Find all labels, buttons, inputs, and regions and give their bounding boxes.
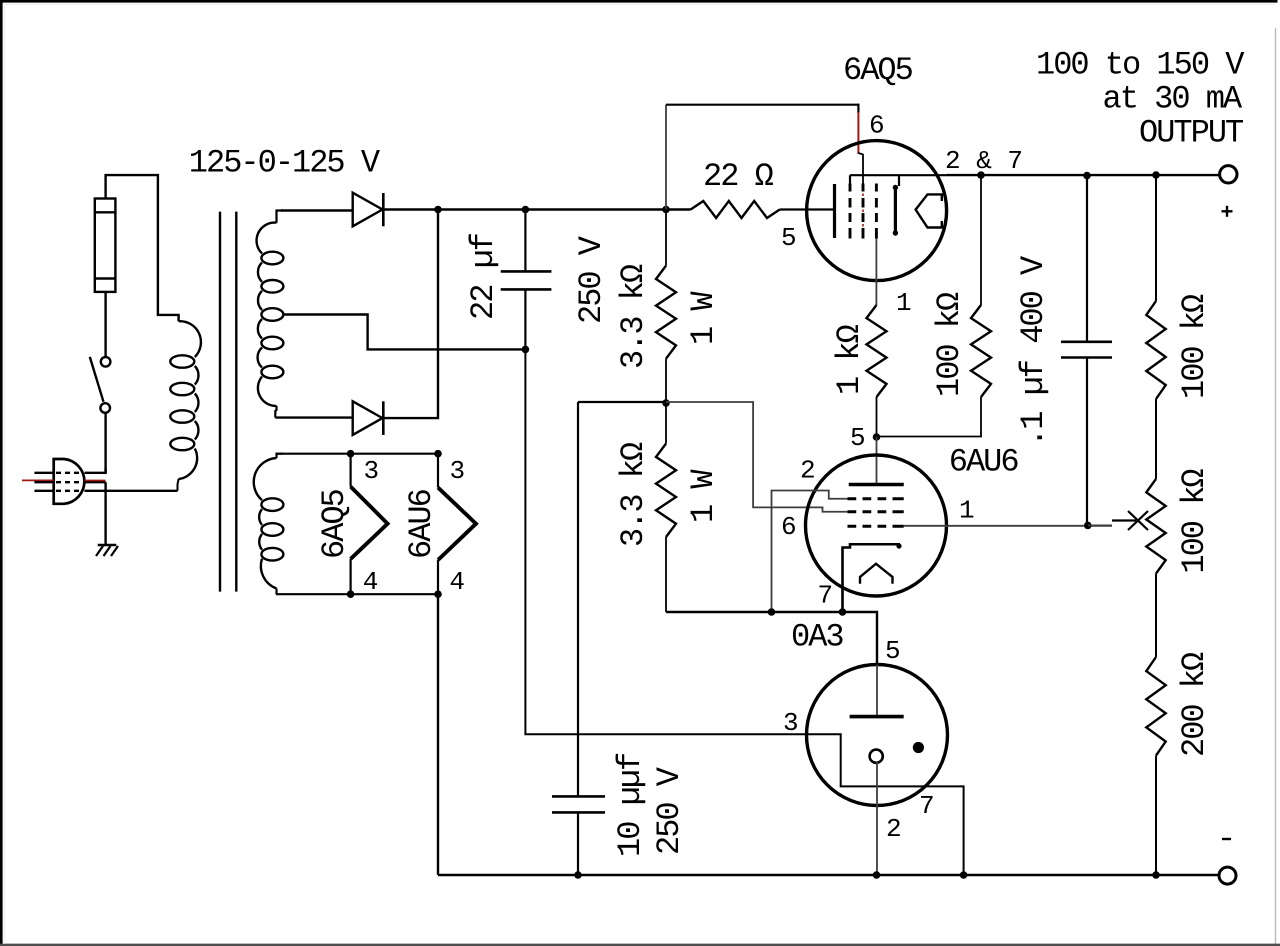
svg-text:7: 7 xyxy=(818,581,834,611)
transformer primary winding xyxy=(179,321,201,357)
svg-text:4: 4 xyxy=(449,567,465,597)
transformer filament winding 6.3V xyxy=(277,454,284,458)
6AQ5 plate bar xyxy=(894,188,897,234)
svg-text:at 30 mA: at 30 mA xyxy=(1103,81,1243,118)
svg-text:6AU6: 6AU6 xyxy=(949,444,1019,481)
svg-text:1: 1 xyxy=(959,496,975,526)
svg-text:7: 7 xyxy=(919,791,935,821)
wire bottom rail xyxy=(438,874,1219,876)
svg-text:1 W: 1 W xyxy=(685,291,722,345)
6AQ5 control grid red dots xyxy=(862,194,864,197)
wire HV top to diode D1 xyxy=(281,209,353,211)
svg-text:100 kΩ: 100 kΩ xyxy=(1176,294,1213,399)
svg-text:3: 3 xyxy=(450,456,466,486)
wire ground prong down xyxy=(104,482,106,545)
output terminal + xyxy=(1220,166,1237,183)
6AQ5 cathode bar xyxy=(833,184,836,238)
wire B+ rail xyxy=(438,208,691,210)
heater 6AU6 xyxy=(437,454,439,488)
tube V3 0A3 envelope xyxy=(807,665,948,806)
svg-text:5: 5 xyxy=(885,636,901,666)
potentiometer R7 100k xyxy=(1146,479,1165,574)
svg-text:200 kΩ: 200 kΩ xyxy=(1176,652,1213,757)
wire hot prong to switch xyxy=(85,468,106,473)
svg-text:250 V: 250 V xyxy=(573,235,610,324)
node divider bottom xyxy=(1152,871,1160,879)
wire neutral prong to transformer primary xyxy=(85,490,178,492)
svg-text:6AU6: 6AU6 xyxy=(403,489,440,559)
wire 0A3 pin2 down xyxy=(876,762,878,875)
svg-text:1 kΩ: 1 kΩ xyxy=(831,324,868,395)
svg-text:1: 1 xyxy=(896,288,912,318)
node heater 6AQ5 pin4 xyxy=(347,590,355,598)
node pin2 route junction xyxy=(768,608,776,616)
ground symbol xyxy=(98,544,117,547)
wire filament top xyxy=(276,453,438,455)
svg-text:6AQ5: 6AQ5 xyxy=(316,489,353,559)
pot wiper arrow xyxy=(1088,524,1112,526)
wire 6AU6 pin2 route xyxy=(772,491,848,613)
capacitor C2 10uuf 250V xyxy=(552,795,605,798)
wire down to 6AQ5 pin6 (red) xyxy=(857,104,859,113)
wire heater return down xyxy=(437,594,439,875)
svg-text:250 V: 250 V xyxy=(651,766,688,855)
node 6AU6 pin5 junction xyxy=(873,433,881,441)
svg-text:OUTPUT: OUTPUT xyxy=(1139,115,1243,152)
wire top feedback horizontal xyxy=(666,104,858,106)
svg-text:3.3 kΩ: 3.3 kΩ xyxy=(615,264,652,369)
wire 0A3 pin5 to anode xyxy=(876,665,878,718)
resistor R1 22 ohm xyxy=(691,201,780,218)
wire 6AQ5 pin1 down xyxy=(875,239,877,306)
AC plug P1 body xyxy=(54,459,85,504)
6AQ5 grids (dashed columns) xyxy=(849,184,852,192)
label minus xyxy=(1222,838,1231,840)
resistor R6 100k divider xyxy=(1155,175,1157,301)
node heater 6AU6 pin3 xyxy=(434,450,442,458)
svg-text:0A3: 0A3 xyxy=(791,619,843,656)
svg-text:2: 2 xyxy=(886,814,902,844)
node .1uf top xyxy=(1083,172,1091,180)
wire 3.3k junction branch down xyxy=(577,402,579,796)
capacitor C1 22uf 250V xyxy=(524,210,526,272)
resistor R3 3.3k 1W xyxy=(656,444,676,537)
wire pin5 to 6AU6 plate xyxy=(876,437,878,485)
wire 0A3 pin3 route xyxy=(525,349,963,875)
svg-text:5: 5 xyxy=(850,423,866,453)
svg-text:6: 6 xyxy=(781,512,797,542)
capacitor C3 .1uf 400V xyxy=(1086,176,1088,342)
wire junction left to 10uuf branch xyxy=(578,401,666,403)
6AQ5 pin2&7 internal wire xyxy=(850,174,947,176)
node 0A3 pin2 bottom xyxy=(873,871,881,879)
svg-text:6AQ5: 6AQ5 xyxy=(843,52,913,89)
fuse F1 xyxy=(95,199,116,292)
svg-text:1 W: 1 W xyxy=(685,469,722,523)
node C1 bottom / center tap xyxy=(522,346,530,354)
wire HV bottom to diode D2 xyxy=(275,416,352,418)
svg-text:3.3 kΩ: 3.3 kΩ xyxy=(615,442,652,547)
svg-text:100 to 150 V: 100 to 150 V xyxy=(1036,47,1245,84)
svg-text:100 kΩ: 100 kΩ xyxy=(1176,469,1213,574)
heater 6AQ5 xyxy=(350,454,352,487)
resistor R2 3.3k 1W xyxy=(665,210,667,266)
svg-text:6: 6 xyxy=(869,111,885,141)
svg-text:22 µf: 22 µf xyxy=(465,233,502,320)
node wiper junction xyxy=(1084,522,1092,530)
AC plug prong middle (ground, red) xyxy=(22,479,54,481)
wire cathode rail xyxy=(666,612,877,665)
svg-text:10 µµf: 10 µµf xyxy=(612,753,649,857)
svg-text:4: 4 xyxy=(363,567,379,597)
node heater 6AU6 pin4 xyxy=(434,590,442,598)
node diode junction xyxy=(434,206,442,214)
svg-text:125-0-125 V: 125-0-125 V xyxy=(189,144,381,181)
wire D2 cathode up to B+ rail xyxy=(383,210,438,419)
label plus xyxy=(1222,210,1233,212)
node divider top xyxy=(1152,171,1160,179)
wire R1 to 6AQ5 pin5 xyxy=(780,208,835,210)
svg-text:3: 3 xyxy=(783,708,799,738)
wire 6AU6 pin1 to pot wiper xyxy=(904,525,1112,527)
svg-text:.1 µf 400 V: .1 µf 400 V xyxy=(1015,255,1052,447)
resistor R5 100k xyxy=(980,175,982,305)
0A3 anode bar xyxy=(850,715,904,719)
wire switch to fuse xyxy=(104,292,106,357)
diode D2 bottom xyxy=(353,401,383,435)
0A3 gas dot xyxy=(913,742,924,753)
svg-text:2: 2 xyxy=(800,456,816,486)
svg-text:100 kΩ: 100 kΩ xyxy=(931,292,968,397)
node R5 top xyxy=(977,171,985,179)
resistor R8 200k xyxy=(1146,657,1165,756)
0A3 cathode circle xyxy=(870,750,883,763)
wire HV center tap xyxy=(284,315,526,350)
transformer HV secondary winding 125-0-125 xyxy=(277,211,284,223)
wire 3.3k junction up xyxy=(665,105,667,210)
wire B+ output rail xyxy=(947,174,1220,176)
node C2 bottom xyxy=(574,871,582,879)
node heater 6AQ5 pin3 xyxy=(347,450,355,458)
node 3.3k top junction xyxy=(662,206,670,214)
svg-text:2 & 7: 2 & 7 xyxy=(945,146,1023,176)
transformer T1 core xyxy=(219,212,221,592)
switch S1 xyxy=(100,403,110,413)
output terminal - xyxy=(1219,867,1236,884)
border frame xyxy=(0,0,1278,3)
node pin7 junction xyxy=(839,608,847,616)
wire filament bottom xyxy=(276,593,438,595)
tube V2 6AU6 envelope xyxy=(806,455,947,596)
resistor R4 1k xyxy=(867,305,887,397)
6AU6 grids (dashed rows) xyxy=(848,497,857,500)
wire junction to 6AU6 pin6 xyxy=(666,402,848,512)
svg-text:22 Ω: 22 Ω xyxy=(703,158,774,195)
AC plug prong bottom (neutral) xyxy=(34,490,53,492)
AC plug prong top (hot) xyxy=(34,472,53,474)
node 0A3 pin7 bottom xyxy=(960,871,968,879)
6AU6 heater symbol xyxy=(860,564,893,584)
wire fuse to primary top xyxy=(106,175,179,321)
diode D1 top xyxy=(353,193,383,227)
6AU6 plate bar xyxy=(849,483,904,486)
6AU6 cathode xyxy=(843,544,901,612)
svg-text:3: 3 xyxy=(364,456,380,486)
wire D1 to B+ rail xyxy=(383,208,438,210)
6AQ5 beam plate xyxy=(916,194,942,227)
svg-text:5: 5 xyxy=(781,223,797,253)
node 22uf cap top xyxy=(522,206,530,214)
node 3.3k mid junction xyxy=(662,399,670,407)
tube V1 6AQ5 envelope xyxy=(807,141,947,281)
